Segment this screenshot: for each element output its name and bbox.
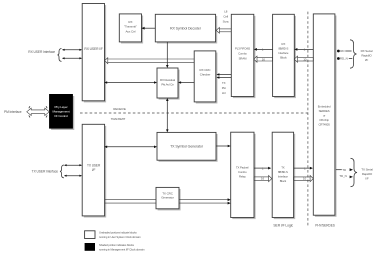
bus RX8B to PL3 ("16" hollow) — [257, 56, 273, 58]
block RX CRC Checker — [194, 51, 217, 104]
wire residual bottom to TX symbol gen (bidir) — [166, 100, 168, 130]
svg-text:Shaded portion indicates block: Shaded portion indicates blocks — [99, 243, 135, 247]
legend unshaded box — [85, 231, 95, 239]
svg-text:Management: Management — [52, 109, 69, 113]
block TX Packet/Combo Relay — [231, 132, 256, 219]
wire RX USER to Residual (bidir) — [107, 82, 155, 84]
svg-text:RECEIVE: RECEIVE — [113, 107, 126, 111]
svg-text:CRT4905: CRT4905 — [318, 123, 330, 127]
svg-text:Interface: Interface — [278, 51, 289, 55]
block TX CRC Generator — [156, 187, 181, 210]
svg-text:Aux Ctrl: Aux Ctrl — [125, 29, 135, 33]
svg-text:I/F: I/F — [365, 177, 368, 181]
svg-text:8B/8D-S: 8B/8D-S — [278, 170, 288, 174]
node RD input dot — [337, 50, 340, 53]
wire RX8B to PL3 ("1") — [257, 48, 273, 50]
svg-text:RX USER Interface: RX USER Interface — [28, 50, 55, 54]
block RX USER I/F — [82, 4, 106, 103]
svg-text:10: 10 — [303, 177, 307, 181]
svg-text:SRAM: SRAM — [239, 57, 247, 61]
wire PM hollow double arrow — [27, 108, 50, 115]
block TX 8B/10B Interface Block — [272, 132, 295, 219]
svg-text:Generator: Generator — [161, 196, 174, 200]
bus TX8B to Embedded ("10" hollow) — [294, 176, 311, 178]
dashed clock-domain boundary vertical — [307, 12, 309, 227]
svg-text:RX Symbol Decoder: RX Symbol Decoder — [170, 26, 202, 30]
svg-text:L8: L8 — [224, 10, 228, 14]
wire decoder bottom to residual top — [166, 42, 168, 66]
svg-text:TX Symbol Generator: TX Symbol Generator — [170, 144, 204, 148]
brace TX user — [60, 165, 64, 178]
svg-text:RapidIO: RapidIO — [361, 54, 372, 58]
block RX "Transmit" Aux Ctrl — [119, 14, 143, 44]
wire TX user arrow 1 — [65, 164, 82, 166]
svg-text:TX: TX — [281, 165, 285, 169]
svg-text:TX CRC: TX CRC — [162, 191, 174, 195]
legend shaded box — [85, 243, 95, 251]
svg-text:Checker: Checker — [200, 72, 211, 76]
svg-text:I/F Control: I/F Control — [54, 114, 68, 118]
block PL3 FIFO/65 Combo SRAM — [231, 14, 255, 98]
svg-text:RapidIO: RapidIO — [362, 172, 373, 176]
bus PL3 to decoder (hollow) — [219, 28, 231, 30]
svg-text:Block: Block — [280, 179, 287, 183]
wire TX packet to TX8B ("1") — [254, 167, 268, 169]
svg-text:RX Residual: RX Residual — [160, 78, 175, 82]
svg-text:RX Serial: RX Serial — [361, 49, 373, 53]
svg-text:Block: Block — [280, 55, 287, 59]
dashed clock-domain boundary horizontal — [80, 112, 308, 114]
block Phy Layer Management I/F Control (shaded) — [49, 94, 74, 130]
svg-text:16: 16 — [261, 177, 265, 181]
svg-text:16: 16 — [262, 57, 266, 61]
svg-text:I/F: I/F — [92, 168, 96, 172]
block Embedded SERDES — [313, 14, 336, 217]
svg-text:Pkt: Pkt — [222, 86, 226, 90]
svg-text:or: or — [323, 114, 325, 118]
svg-text:Embedded: Embedded — [318, 105, 331, 109]
svg-text:running in Management I/F Cloc: running in Management I/F Clock domain — [99, 248, 145, 252]
bus Embedded to RX8B ("10" hollow) — [298, 56, 314, 58]
svg-text:Sync: Sync — [223, 19, 230, 23]
svg-text:PL3 FIFO/65: PL3 FIFO/65 — [235, 47, 250, 51]
svg-text:TRANSMIT: TRANSMIT — [111, 117, 126, 121]
wire RX CRC to Residual — [181, 82, 195, 84]
wire PL3 to RX CRC line 1 — [219, 74, 231, 76]
svg-text:running in User System Clock d: running in User System Clock domain — [99, 235, 141, 239]
svg-text:RX: RX — [282, 42, 286, 46]
block RX Symbol Decoder — [155, 14, 217, 43]
svg-text:Phy Layer: Phy Layer — [54, 105, 67, 109]
svg-text:Combo: Combo — [238, 170, 247, 174]
block RX Residual Pkt Avl Ctr — [157, 68, 180, 100]
wire decoder to aux ctrl — [142, 27, 156, 29]
svg-text:"Transmit": "Transmit" — [124, 25, 137, 29]
bus TX CRC to TX packet — [179, 199, 229, 201]
bus TX USER to TX CRC — [105, 199, 156, 201]
wire TX8B to Embedded ("1") — [294, 167, 310, 169]
svg-text:TX USER Interface: TX USER Interface — [32, 170, 59, 174]
svg-text:RD_N: RD_N — [340, 57, 348, 61]
block TX USER I/F — [82, 124, 106, 217]
brace RX user — [58, 49, 62, 62]
svg-text:Pkt Avl Ctr: Pkt Avl Ctr — [161, 83, 173, 87]
svg-text:TX Packet/: TX Packet/ — [236, 165, 249, 169]
wire TX user arrow 2 — [65, 175, 82, 177]
svg-text:RX: RX — [128, 20, 132, 24]
bus TX packet to TX8B ("16" hollow) — [254, 176, 269, 178]
svg-text:PM Interface: PM Interface — [4, 110, 22, 114]
wire TX symbol gen to TX packet — [216, 145, 229, 147]
svg-text:TX: TX — [222, 81, 226, 85]
svg-text:PHY/SERDES: PHY/SERDES — [315, 224, 335, 228]
svg-text:SERDES: SERDES — [319, 109, 330, 113]
wire TD output — [336, 169, 342, 171]
svg-text:Cell: Cell — [223, 15, 228, 19]
svg-text:Unshaded portions indicate blo: Unshaded portions indicate blocks — [99, 231, 137, 235]
wire Embedded to RX8B ("1") — [297, 48, 313, 50]
brace TX serial — [351, 158, 358, 186]
bus RX CRC to RX USER (hollow) — [108, 58, 195, 60]
svg-text:8B/8D-S: 8B/8D-S — [278, 47, 288, 51]
wire RX user arrow 2 — [63, 57, 82, 59]
svg-text:TD_N: TD_N — [339, 174, 346, 178]
wire PL3 to RX CRC line 2 — [219, 77, 231, 79]
svg-text:Interface: Interface — [278, 174, 289, 178]
block RX 8B/10B Interface Block — [273, 14, 296, 98]
svg-text:TX Serial: TX Serial — [361, 168, 373, 172]
svg-text:Off-Chip: Off-Chip — [319, 118, 329, 122]
wire TX USER to TX symbol gen (bidir) — [107, 146, 155, 148]
svg-text:10: 10 — [303, 57, 307, 61]
svg-text:SER I/F Logic: SER I/F Logic — [273, 224, 293, 228]
wire RX user arrow 1 — [63, 49, 82, 51]
svg-text:Combo: Combo — [238, 52, 247, 56]
svg-text:TX USER: TX USER — [87, 163, 101, 167]
svg-text:Lbl: Lbl — [222, 91, 226, 95]
svg-text:RX USER I/F: RX USER I/F — [84, 47, 102, 51]
svg-text:Relay: Relay — [239, 174, 246, 178]
node RD_N input dot — [337, 57, 340, 60]
svg-text:I/F: I/F — [365, 58, 368, 62]
block TX Symbol Generator — [157, 132, 218, 161]
brace RX serial — [350, 40, 357, 68]
